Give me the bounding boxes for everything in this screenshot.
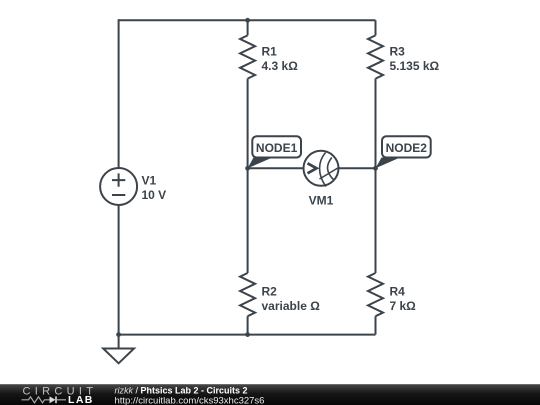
- wire bottom rail: [119, 334, 376, 336]
- resistor R2: [240, 273, 320, 316]
- logo schematic resistor and diode: [22, 396, 67, 403]
- junction dot bottom rail / ground: [116, 332, 121, 337]
- junction dot bottom rail / R2 column: [245, 332, 250, 337]
- footer bar: [0, 384, 540, 405]
- wire right column mid (R3 to R4): [375, 79, 377, 273]
- svg-text:R4: R4: [390, 285, 406, 299]
- svg-text:R2: R2: [262, 285, 278, 299]
- junction dot NODE1: [245, 166, 250, 171]
- wire right column bottom lead: [375, 316, 377, 334]
- wire middle column bottom lead: [247, 316, 249, 334]
- svg-text:http://circuitlab.com/cks93xhc: http://circuitlab.com/cks93xhc327s6: [115, 395, 265, 405]
- node NODE2 flag: [376, 136, 431, 168]
- svg-text:NODE1: NODE1: [256, 141, 298, 155]
- resistor R3: [368, 35, 440, 78]
- voltage source V1: [100, 168, 166, 205]
- voltmeter VM1: [304, 151, 340, 208]
- wire middle horizontal (NODE1 to NODE2): [248, 167, 376, 169]
- ground: [103, 349, 134, 364]
- footer title line: [115, 385, 248, 395]
- footer url line: [115, 395, 265, 405]
- wire right column top lead: [375, 20, 377, 35]
- wire left column upper (top rail to V1): [118, 19, 120, 168]
- svg-text:VM1: VM1: [309, 193, 334, 207]
- svg-text:LAB: LAB: [68, 394, 94, 405]
- wire middle column mid (R1 to R2): [247, 79, 249, 273]
- svg-text:R3: R3: [390, 45, 406, 59]
- svg-text:NODE2: NODE2: [386, 141, 428, 155]
- junction dot NODE2: [373, 166, 378, 171]
- junction dot top rail / R1 column: [245, 18, 250, 23]
- logo CIRCUIT text: [23, 386, 98, 398]
- svg-text:V1: V1: [142, 173, 157, 187]
- wire ground stub: [118, 335, 120, 349]
- wire middle column top lead: [247, 20, 249, 35]
- resistor R1: [240, 35, 298, 78]
- wire left column lower (V1 to bottom rail): [118, 205, 120, 335]
- svg-text:R1: R1: [262, 45, 278, 59]
- svg-text:7 kΩ: 7 kΩ: [390, 299, 417, 313]
- svg-text:4.3 kΩ: 4.3 kΩ: [262, 59, 299, 73]
- resistor R4: [368, 273, 416, 316]
- svg-text:variable Ω: variable Ω: [262, 299, 321, 313]
- svg-text:5.135 kΩ: 5.135 kΩ: [390, 59, 440, 73]
- wire top rail: [119, 19, 376, 21]
- svg-text:rizkk / Phtsics Lab 2 - Circui: rizkk / Phtsics Lab 2 - Circuits 2: [115, 385, 248, 395]
- svg-text:10 V: 10 V: [142, 188, 167, 202]
- node NODE1 flag: [248, 136, 301, 168]
- logo LAB text: [68, 394, 94, 405]
